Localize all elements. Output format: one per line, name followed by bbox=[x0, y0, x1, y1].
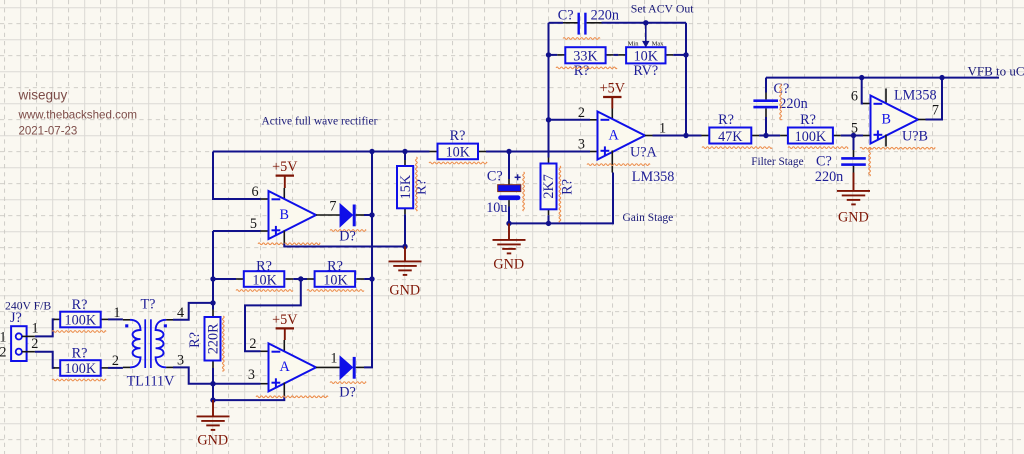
error squiggle under 47K bbox=[702, 147, 772, 149]
svg-text:100K: 100K bbox=[65, 361, 97, 377]
capacitor C? 10u plate 1 bbox=[498, 185, 521, 192]
error squiggle under 33K bbox=[556, 67, 617, 69]
junction 10K mid bbox=[298, 276, 303, 281]
capacitor C? 220n (shunt) stub top bbox=[853, 150, 855, 157]
wire pot to feedback right bbox=[673, 54, 686, 56]
wire 33K row left bbox=[549, 54, 558, 56]
error squiggle right of 220R bbox=[222, 316, 224, 371]
junction diode upper output bbox=[369, 212, 374, 217]
svg-text:+5V: +5V bbox=[272, 159, 298, 175]
wire diode upper to bus bbox=[364, 214, 372, 216]
wire node F to cap bbox=[765, 117, 767, 136]
wire pin5 node to cap bbox=[853, 136, 855, 151]
wire +5V to opamp gain V+ bbox=[611, 97, 613, 109]
connector J? pin 2 stub bbox=[22, 351, 35, 353]
error squiggle under feedback cap bbox=[563, 38, 600, 40]
resistor R? 33K body bbox=[565, 47, 605, 63]
junction diode column / 10K row bbox=[369, 276, 374, 281]
op-amp U?A rectifier V+ stub bbox=[283, 340, 285, 352]
potentiometer RV? 10K body bbox=[626, 47, 665, 63]
resistor R? 10K (bus) body bbox=[438, 144, 479, 160]
error squiggle under 10K row a bbox=[236, 290, 293, 292]
transformer T? secondary winding bbox=[156, 320, 167, 368]
svg-text:Set ACV Out: Set ACV Out bbox=[631, 1, 694, 15]
wire opamp B output to diode bbox=[316, 214, 340, 216]
junction node X / T pin4 bbox=[210, 300, 215, 305]
svg-text:LM358: LM358 bbox=[632, 169, 675, 185]
resistor R? 15K pin stubs bbox=[404, 152, 406, 167]
diode D? (lower) stub bbox=[356, 366, 364, 368]
capacitor C? 220n (filter fb) plate 2 bbox=[753, 106, 778, 109]
wire 2K7 to gnd rail bbox=[548, 215, 550, 223]
wire feedback right vertical bbox=[685, 23, 687, 136]
svg-text:VFB to uC: VFB to uC bbox=[968, 63, 1024, 78]
connector J? body bbox=[11, 326, 27, 361]
resistor R? 47K body bbox=[709, 128, 751, 144]
svg-text:TL111V: TL111V bbox=[127, 373, 176, 389]
ground GND (15K) bbox=[404, 247, 406, 262]
ground GND (filter) bbox=[853, 173, 855, 192]
op-amp U?A rectifier V- stub bbox=[283, 383, 285, 396]
transformer T? phase dot secondary bbox=[164, 324, 167, 327]
error squiggle right of 15K bbox=[416, 157, 418, 211]
capacitor C? 220n (filter fb) stub top bbox=[765, 93, 767, 100]
resistor R? 100K (filter) pin stubs bbox=[780, 135, 788, 137]
diode D? (upper) cathode bar bbox=[353, 205, 356, 227]
op-amp U?B rectifier V- stub bbox=[283, 231, 285, 244]
transformer T? primary winding bbox=[130, 320, 141, 368]
error squiggle under opamp buffer bbox=[860, 147, 935, 149]
svg-text:Max: Max bbox=[652, 41, 665, 48]
resistor R? 220R body bbox=[205, 317, 221, 361]
error squiggle under opamp gain bbox=[587, 164, 650, 166]
resistor R? 2K7 body bbox=[541, 164, 557, 210]
svg-text:220n: 220n bbox=[815, 169, 843, 185]
svg-text:220n: 220n bbox=[591, 8, 619, 24]
capacitor C? 220n (shunt) stub bottom bbox=[853, 166, 855, 173]
capacitor C? 220n (feedback) plate 2 bbox=[584, 13, 586, 35]
wire R 100K a to T pin1 bbox=[108, 318, 123, 320]
svg-text:J?: J? bbox=[10, 310, 22, 326]
wire 15K to gnd junction bbox=[404, 214, 406, 246]
error squiggle under 10K row b bbox=[307, 290, 364, 292]
diode D? (lower) body bbox=[340, 357, 352, 379]
junction feedback right / pot row bbox=[683, 52, 688, 57]
op-amp U?A gain pin3 stub bbox=[590, 151, 598, 153]
capacitor C? 220n (feedback) stub left bbox=[563, 22, 578, 24]
wire pin2 node to opamp bbox=[549, 119, 591, 121]
wire diode column bbox=[371, 152, 373, 280]
error squiggle under diode upper bbox=[330, 230, 366, 232]
error squiggle right of filter fb cap bbox=[780, 84, 782, 120]
junction ground bus / opamp A V- bbox=[210, 397, 215, 402]
wire ground bus vertical bbox=[212, 384, 214, 400]
svg-text:T?: T? bbox=[141, 297, 156, 313]
svg-text:10u: 10u bbox=[486, 200, 507, 216]
junction 10u / gnd rail bbox=[506, 221, 511, 226]
svg-text:C?: C? bbox=[487, 169, 503, 185]
resistor R? 10K (row b) body bbox=[315, 271, 356, 287]
resistor R? 10K (bus) pin stubs bbox=[430, 151, 438, 153]
svg-text:2: 2 bbox=[0, 345, 7, 361]
transformer T? pin1 stub bbox=[123, 319, 130, 321]
wire gain gnd rail bbox=[509, 173, 613, 224]
op-amp U?B buffer output stub bbox=[918, 119, 926, 121]
error squiggle right of 10u bbox=[523, 172, 525, 211]
resistor R? 10K (row a) pin stubs bbox=[236, 278, 244, 280]
svg-text:6: 6 bbox=[851, 88, 858, 104]
op-amp U?A rectifier pin3 stub bbox=[261, 383, 269, 385]
op-amp U?B buffer pin6 stub bbox=[863, 103, 871, 105]
junction bus / diode column bbox=[369, 149, 374, 154]
svg-text:5: 5 bbox=[851, 120, 858, 136]
svg-text:R?: R? bbox=[574, 63, 590, 79]
connector J? pin 1 circle bbox=[16, 333, 22, 339]
junction wiper / top wire bbox=[643, 20, 648, 25]
wire cap to top rail bbox=[765, 78, 767, 93]
op-amp U?A gain V+ stub bbox=[611, 109, 613, 121]
wire pin6 drop bbox=[862, 78, 863, 104]
op-amp U?A gain pin2 stub bbox=[590, 119, 598, 121]
ground GND (gain) bbox=[508, 223, 510, 240]
ground GND (rectifier) bbox=[212, 400, 214, 416]
op-amp U?B rectifier V+ stub bbox=[283, 188, 285, 200]
svg-text:1: 1 bbox=[0, 329, 7, 345]
op-amp U?A rectifier pin2 stub bbox=[261, 350, 269, 352]
junction VFB / output bbox=[939, 75, 944, 80]
wire node X to 10K row bbox=[213, 278, 236, 280]
svg-text:100K: 100K bbox=[65, 313, 97, 329]
svg-text:220n: 220n bbox=[779, 96, 807, 112]
capacitor C? 10u stub top bbox=[508, 179, 510, 185]
wire +5V to opamp B V+ bbox=[284, 176, 286, 188]
op-amp U?B rectifier pin5 stub bbox=[261, 230, 269, 232]
resistor R? 10K (row b) pin stubs bbox=[307, 278, 315, 280]
error squiggle under 10K bus bbox=[429, 162, 487, 164]
wire 47K to node F bbox=[759, 135, 780, 137]
svg-text:3: 3 bbox=[177, 352, 184, 368]
transformer T? pin3 stub bbox=[166, 366, 173, 368]
diode D? (upper) body bbox=[340, 205, 352, 227]
svg-text:U?A: U?A bbox=[630, 144, 658, 160]
svg-text:15K: 15K bbox=[398, 174, 414, 199]
svg-text:7: 7 bbox=[329, 199, 336, 215]
junction feedback left / 33K bbox=[546, 52, 551, 57]
error squiggle under diode lower bbox=[330, 382, 366, 384]
junction averaging node bbox=[506, 149, 511, 154]
junction bus / 15K bbox=[402, 149, 407, 154]
junction node F bbox=[763, 133, 768, 138]
error squiggle under opamp A rectifier bbox=[256, 396, 328, 398]
error squiggle under 100K filter bbox=[788, 147, 848, 149]
resistor R? 15K body bbox=[397, 166, 413, 208]
op-amp U?A gain V- stub bbox=[611, 151, 613, 173]
error squiggle under 100K bottom bbox=[52, 379, 106, 381]
svg-text:C?: C? bbox=[558, 8, 574, 24]
svg-text:Gain Stage: Gain Stage bbox=[623, 212, 674, 224]
svg-text:2: 2 bbox=[31, 336, 38, 352]
wire opamp B V- to gnd bus bbox=[284, 244, 405, 247]
junction pin2 node bbox=[546, 117, 551, 122]
wire 10K bus to opamp A pin3 bbox=[486, 151, 590, 153]
svg-text:10K: 10K bbox=[323, 272, 348, 288]
svg-text:2: 2 bbox=[112, 353, 119, 369]
svg-text:B: B bbox=[882, 111, 891, 127]
wire opamp A output to diode bbox=[316, 366, 340, 368]
wire VFB rail bbox=[766, 77, 999, 79]
resistor R? 10K (row a) body bbox=[244, 271, 284, 287]
wire pin2 node to 2K7 bbox=[548, 120, 550, 158]
svg-text:+5V: +5V bbox=[600, 81, 626, 97]
wire rectifier bus bbox=[213, 151, 430, 153]
svg-text:1: 1 bbox=[330, 350, 337, 366]
wire pin6 loop bbox=[213, 152, 261, 200]
resistor R? 100K (bottom input) pin stubs bbox=[54, 367, 61, 369]
wire 10K mid to opamp A pin2 bbox=[245, 279, 301, 351]
resistor R? 100K (filter) body bbox=[788, 128, 833, 144]
wire node X vertical bbox=[212, 231, 214, 310]
svg-text:GND: GND bbox=[197, 433, 228, 449]
wire 10u to gnd rail bbox=[508, 207, 510, 224]
capacitor C? 10u stub bottom bbox=[508, 200, 510, 206]
svg-text:220R: 220R bbox=[205, 323, 221, 354]
op-amp U?B rectifier body bbox=[269, 191, 317, 239]
junction gain output bbox=[683, 133, 688, 138]
capacitor C? 220n (filter fb) stub bottom bbox=[765, 108, 767, 117]
svg-text:1: 1 bbox=[32, 320, 39, 336]
error squiggle under opamp B rectifier bbox=[258, 243, 320, 245]
svg-text:2: 2 bbox=[249, 336, 256, 352]
resistor R? 47K pin stubs bbox=[702, 135, 710, 137]
wire pin5 horiz bbox=[213, 230, 261, 232]
error squiggle under 100K top bbox=[52, 331, 106, 333]
svg-text:B: B bbox=[280, 207, 289, 223]
svg-text:A: A bbox=[609, 127, 620, 143]
wire feedback top right bbox=[602, 22, 687, 24]
wire opamp gain output bbox=[653, 135, 687, 137]
transformer T? pin2 stub bbox=[123, 366, 130, 368]
wire J1 to R-100K-a bbox=[35, 319, 55, 336]
svg-text:1: 1 bbox=[113, 305, 120, 321]
resistor R? 2K7 pin stubs bbox=[548, 158, 550, 164]
op-amp U?B buffer body bbox=[871, 96, 919, 144]
svg-text:Min: Min bbox=[628, 41, 640, 48]
wire 220R to ground bus bbox=[212, 368, 214, 384]
svg-text:7: 7 bbox=[932, 102, 939, 118]
capacitor C? 220n (feedback) plate 1 bbox=[578, 13, 580, 35]
resistor R? 100K (bottom input) body bbox=[60, 360, 100, 376]
svg-text:D?: D? bbox=[339, 229, 356, 245]
transformer T? pin4 stub bbox=[166, 319, 173, 321]
capacitor C? 220n (feedback) stub right bbox=[587, 22, 602, 24]
op-amp U?A rectifier body bbox=[269, 343, 317, 391]
svg-text:R?: R? bbox=[72, 345, 88, 361]
wire buffer output to VFB bbox=[926, 78, 943, 120]
capacitor C? 10u plate 2 bbox=[498, 195, 520, 200]
junction pin5 node bbox=[851, 133, 856, 138]
svg-text:GND: GND bbox=[493, 257, 524, 273]
svg-text:R?: R? bbox=[72, 297, 88, 313]
op-amp U?A gain body bbox=[598, 112, 646, 160]
wire 100K to pin5 node bbox=[841, 135, 863, 137]
wire gnd bus to opamp A pin3 bbox=[213, 383, 261, 385]
svg-text:GND: GND bbox=[838, 210, 869, 226]
op-amp U?B buffer pin5 stub bbox=[863, 135, 871, 137]
resistor R? 33K pin stubs bbox=[557, 54, 565, 56]
wire J2 to R-100K-b bbox=[35, 352, 55, 368]
svg-text:3: 3 bbox=[248, 367, 255, 383]
wire opamp A V- return bbox=[213, 396, 284, 401]
junction node X / 10K bbox=[210, 276, 215, 281]
potentiometer RV? 10K stubs bbox=[618, 54, 626, 56]
wire feedback top left bbox=[549, 22, 564, 24]
svg-text:4: 4 bbox=[177, 305, 184, 321]
resistor R? 100K (top input) pin stubs bbox=[54, 318, 61, 320]
op-amp U?A gain output stub bbox=[645, 135, 653, 137]
capacitor C? 220n (filter fb) plate 1 bbox=[753, 99, 778, 102]
svg-text:LM358: LM358 bbox=[894, 88, 937, 104]
svg-text:wiseguy: wiseguy bbox=[18, 88, 68, 103]
svg-text:47K: 47K bbox=[718, 129, 743, 145]
capacitor C? 10u plus sign bbox=[515, 176, 521, 178]
wire feedback left vertical bbox=[548, 23, 550, 120]
diode D? (lower) cathode bar bbox=[353, 357, 356, 379]
svg-text:R?: R? bbox=[718, 112, 734, 128]
wire bus to 15K bbox=[404, 152, 406, 161]
svg-text:100K: 100K bbox=[795, 129, 827, 145]
error squiggle right of shunt cap bbox=[869, 148, 871, 176]
svg-text:1: 1 bbox=[659, 120, 666, 136]
op-amp U?B rectifier pin6 stub bbox=[261, 198, 269, 200]
potentiometer RV? wiper bbox=[645, 23, 647, 42]
wire T pin4 to node X bbox=[173, 303, 213, 320]
svg-text:Filter Stage: Filter Stage bbox=[751, 156, 803, 168]
svg-text:6: 6 bbox=[252, 184, 259, 200]
transformer T? phase dot primary bbox=[125, 324, 128, 327]
svg-text:R?: R? bbox=[560, 179, 576, 195]
svg-text:U?B: U?B bbox=[902, 129, 928, 145]
svg-text:RV?: RV? bbox=[633, 63, 658, 79]
svg-text:10K: 10K bbox=[252, 272, 277, 288]
svg-text:10K: 10K bbox=[446, 145, 471, 161]
svg-text:R?: R? bbox=[800, 112, 816, 128]
svg-text:Active full wave rectifier: Active full wave rectifier bbox=[262, 116, 378, 128]
svg-text:2K7: 2K7 bbox=[541, 174, 557, 198]
resistor R? 220R pin stubs bbox=[212, 310, 214, 318]
op-amp U?B buffer V- stub bbox=[885, 135, 887, 147]
error squiggle right of 2K7 bbox=[559, 166, 561, 222]
svg-text:www.thebackshed.com: www.thebackshed.com bbox=[18, 109, 138, 122]
junction VFB / pin6 bbox=[859, 75, 864, 80]
svg-text:2: 2 bbox=[578, 105, 585, 121]
transformer T? core bbox=[144, 319, 146, 368]
svg-text:C?: C? bbox=[816, 153, 832, 169]
svg-text:3: 3 bbox=[578, 136, 585, 152]
connector J? pin 1 stub bbox=[22, 335, 35, 337]
wire 10K a-b bbox=[293, 278, 307, 280]
svg-text:2021-07-23: 2021-07-23 bbox=[19, 126, 78, 138]
op-amp U?B buffer V+ stub bbox=[885, 89, 887, 105]
junction 15K / gnd bbox=[402, 244, 407, 249]
svg-text:R?: R? bbox=[187, 332, 203, 348]
capacitor C? 220n (shunt) plate 1 bbox=[841, 157, 866, 160]
wire gain out to 47K bbox=[686, 135, 702, 137]
junction 2K7 / gnd rail bbox=[546, 221, 551, 226]
svg-text:+5V: +5V bbox=[272, 312, 298, 328]
wire 33K to pot bbox=[613, 54, 618, 56]
connector J? pin 2 circle bbox=[16, 349, 22, 355]
diode D? (upper) stub bbox=[356, 214, 364, 216]
svg-text:D?: D? bbox=[339, 385, 356, 401]
wire node to 10u cap bbox=[508, 152, 510, 180]
resistor R? 100K (top input) body bbox=[60, 312, 100, 328]
wire 10K b to diode column bbox=[364, 278, 372, 280]
capacitor C? 220n (shunt) plate 2 bbox=[841, 163, 866, 166]
junction ground bus / T pin3 bbox=[210, 381, 215, 386]
wire +5V to opamp A V+ bbox=[284, 328, 286, 340]
svg-text:A: A bbox=[280, 359, 291, 375]
wire diode lower up to 10K row bbox=[364, 279, 372, 367]
svg-text:GND: GND bbox=[389, 283, 420, 299]
wire T pin3 to ground bus bbox=[173, 367, 213, 383]
svg-text:R?: R? bbox=[450, 128, 466, 144]
wire R 100K b to T pin2 bbox=[108, 367, 123, 369]
svg-text:5: 5 bbox=[250, 216, 257, 232]
